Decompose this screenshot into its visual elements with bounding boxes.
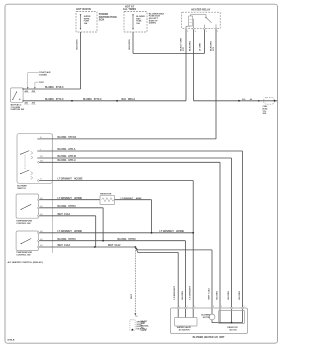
svg-text:BLK/ORG: BLK/ORG [190,41,192,51]
svg-text:2: 2 [194,306,195,308]
svg-text:WHT: WHT [58,245,64,247]
svg-text:ST7DU: ST7DU [68,239,76,241]
svg-text:UNITS: UNITS [141,330,147,332]
svg-text:WHT: WHT [131,293,133,299]
svg-text:BL/ORG: BL/ORG [216,291,218,300]
svg-text:C287: C287 [39,82,45,84]
svg-text:RD3-A: RD3-A [128,98,135,101]
svg-text:2: 2 [187,31,188,33]
svg-text:C260(B): C260(B) [39,75,47,77]
svg-text:2: 2 [244,306,245,308]
svg-text:A5ME: A5ME [136,197,142,200]
svg-text:BL/ORG: BL/ORG [182,291,184,300]
svg-text:LT GRN/WHT: LT GRN/WHT [190,285,192,299]
svg-text:LT GRN/WHT: LT GRN/WHT [58,179,73,181]
svg-text:CONTROL SW: CONTROL SW [16,254,30,256]
svg-text:LT GRN: LT GRN [200,43,202,51]
svg-text:HC5ME: HC5ME [176,231,185,233]
svg-text:BL/ORG: BL/ORG [58,137,67,139]
svg-text:C1A2: C1A2 [64,213,71,216]
svg-text:HC5ME: HC5ME [74,231,83,233]
svg-text:BLOCK: BLOCK [230,329,238,331]
svg-text:LT GRN/WHT: LT GRN/WHT [58,231,73,233]
svg-text:ALL TIMES: ALL TIMES [123,8,136,11]
svg-text:5: 5 [221,306,222,308]
svg-text:WHT: WHT [108,245,114,247]
svg-text:HTR-A: HTR-A [68,148,75,151]
svg-text:4: 4 [195,30,196,33]
svg-text:C1A2: C1A2 [64,244,71,247]
svg-text:WHT: WHT [58,214,64,216]
svg-text:HCGME: HCGME [74,179,83,181]
svg-text:3: 3 [206,31,207,33]
svg-text:ST7DU: ST7DU [68,206,76,208]
svg-text:1: 1 [179,306,180,308]
svg-text:DASH): DASH) [149,22,156,25]
svg-text:BLK/ORG: BLK/ORG [77,39,79,49]
svg-text:BL/ORG: BL/ORG [58,149,67,151]
svg-text:BL/ORG: BL/ORG [118,239,127,241]
svg-text:HC5ME: HC5ME [74,198,83,200]
svg-text:HEATER RELAY: HEATER RELAY [191,9,210,12]
svg-text:BL/ORG: BL/ORG [45,99,54,101]
svg-text:HTR-H: HTR-H [68,160,75,162]
svg-text:LT GRN/WHT: LT GRN/WHT [58,198,73,200]
svg-text:HTR-W: HTR-W [68,156,76,158]
svg-text:BL/ORG: BL/ORG [239,291,241,300]
svg-text:ST73-D: ST73-D [68,137,76,139]
svg-text:101: 101 [135,316,138,318]
svg-text:BL/ORG: BL/ORG [83,99,92,101]
svg-text:IGNITION SW: IGNITION SW [11,109,26,111]
svg-text:ST7DU: ST7DU [128,239,136,241]
svg-text:CONTROL SW: CONTROL SW [16,223,30,225]
svg-text:LT GRN/WHT: LT GRN/WHT [160,231,175,233]
svg-text:RESISTOR: RESISTOR [100,194,112,196]
svg-text:BL/ORG: BL/ORG [58,160,67,162]
svg-text:BLOWER HEATER A/C UNIT: BLOWER HEATER A/C UNIT [193,336,225,339]
svg-text:WHT C1A2: WHT C1A2 [207,288,210,300]
svg-text:BOX: BOX [99,19,105,22]
svg-text:HOT IN RUN: HOT IN RUN [76,8,91,11]
svg-text:LT BRN/WHT: LT BRN/WHT [174,285,176,299]
svg-text:30K: 30K [263,113,267,115]
svg-text:ST18-C: ST18-C [56,87,64,89]
svg-text:A/C HEATER CONTROL (W/M A/C): A/C HEATER CONTROL (W/M A/C) [8,261,44,264]
svg-text:Z094-B: Z094-B [7,339,15,342]
svg-text:ST73-C: ST73-C [56,99,64,101]
svg-text:LT BRN/WHT: LT BRN/WHT [121,198,135,200]
svg-text:BL/ORG: BL/ORG [58,239,67,241]
svg-text:BLK: BLK [122,99,127,101]
svg-text:MOTOR: MOTOR [203,317,211,319]
svg-text:ACTUATOR: ACTUATOR [179,328,191,331]
svg-text:5: 5 [217,31,218,33]
svg-text:BL/ORG: BL/ORG [58,206,67,208]
svg-text:BL/ORG: BL/ORG [45,87,54,89]
svg-text:BL/ORG: BL/ORG [228,291,230,300]
svg-text:SWITCH: SWITCH [17,188,26,190]
svg-text:ST73-C: ST73-C [94,99,102,101]
svg-text:BL/ORG: BL/ORG [58,156,67,158]
svg-text:BLK/ORG: BLK/ORG [129,39,131,49]
svg-text:C1A2: C1A2 [114,244,121,247]
svg-text:3: 3 [187,306,188,308]
